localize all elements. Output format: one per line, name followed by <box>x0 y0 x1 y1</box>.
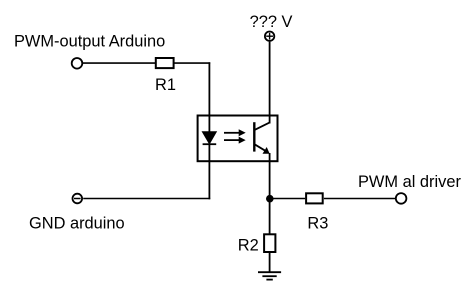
resistor R1 <box>156 58 174 68</box>
wire: down-left run to GND terminal <box>83 198 210 200</box>
wire: junction down to R2 <box>269 199 271 234</box>
wire: R3 to output terminal <box>324 198 395 200</box>
light arrows from LED to phototransistor <box>224 129 246 143</box>
svg-text:R1: R1 <box>155 76 176 94</box>
svg-text:R3: R3 <box>307 214 328 232</box>
wire: junction to R3 <box>270 198 306 200</box>
wire: supply down to optocoupler collector <box>269 42 271 124</box>
svg-text:PWM-output Arduino: PWM-output Arduino <box>14 32 165 50</box>
wire: emitter down to junction node <box>269 153 271 199</box>
svg-text:??? V: ??? V <box>250 13 293 31</box>
ground symbol <box>258 272 281 279</box>
terminal: GND arduino pin (circle with minus) <box>73 194 83 204</box>
phototransistor Q (base bar, collector, emitter with arrow) <box>254 122 269 154</box>
optocoupler U1 package box <box>198 116 278 162</box>
LED inside optocoupler (anode top, cathode bottom) <box>202 132 216 144</box>
power terminal: +V supply circle <box>265 32 274 41</box>
wire: terminal to R1 <box>83 62 156 64</box>
wire: R2 down to ground <box>269 253 271 272</box>
svg-text:GND arduino: GND arduino <box>29 214 125 232</box>
terminal: PWM-output Arduino pin <box>72 58 83 69</box>
wire: R1 to corner <box>174 62 211 64</box>
svg-text:R2: R2 <box>238 236 259 254</box>
junction node dot <box>266 195 274 203</box>
wire: corner down to LED anode <box>208 62 210 133</box>
resistor R3 <box>306 193 323 203</box>
resistor R2 <box>264 234 275 252</box>
wire: LED cathode down <box>208 145 210 200</box>
terminal: PWM al driver pin <box>396 193 407 204</box>
svg-text:PWM al driver: PWM al driver <box>358 173 461 191</box>
